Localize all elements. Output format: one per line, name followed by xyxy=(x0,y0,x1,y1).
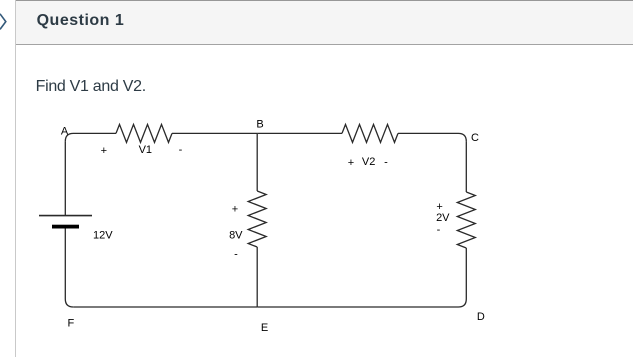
wire bottom F to E xyxy=(73,306,257,308)
wire node B down to resistor 8V xyxy=(256,133,258,191)
svg-text:-: - xyxy=(384,156,388,168)
wire resistor 8V to node E xyxy=(256,247,258,307)
svg-text:V2: V2 xyxy=(362,156,375,168)
wire left branch A to battery xyxy=(64,141,66,215)
battery 12V negative plate xyxy=(52,225,79,229)
resistor V2 xyxy=(342,124,398,142)
battery 12V positive plate xyxy=(39,215,92,217)
svg-text:C: C xyxy=(471,132,479,144)
wire node B to resistor V2 xyxy=(257,132,342,134)
svg-text:+: + xyxy=(101,145,107,157)
svg-text:-: - xyxy=(179,144,183,156)
svg-text:B: B xyxy=(256,119,263,131)
svg-text:-: - xyxy=(437,224,441,236)
resistor V1 xyxy=(116,124,172,142)
svg-text:12V: 12V xyxy=(93,229,113,241)
svg-text:-: - xyxy=(234,248,238,260)
wire resistor V2 to top-right corner C xyxy=(398,133,466,141)
svg-text:+: + xyxy=(232,204,238,216)
svg-text:V1: V1 xyxy=(139,144,152,156)
svg-text:E: E xyxy=(261,322,268,334)
wire resistor 2V to bottom-right corner D xyxy=(465,248,467,299)
resistor 2V xyxy=(457,192,475,248)
nav chevron icon xyxy=(0,0,12,36)
svg-text:F: F xyxy=(68,317,75,329)
svg-text:D: D xyxy=(477,311,485,323)
svg-text:2V: 2V xyxy=(436,212,450,224)
resistor 8V xyxy=(248,191,266,247)
wire node C down to resistor 2V xyxy=(465,141,467,192)
svg-text:8V: 8V xyxy=(229,230,243,242)
wire resistor V1 to node B xyxy=(172,132,257,134)
wire top-left corner A to resistor V1 xyxy=(65,133,116,141)
wire bottom E to D xyxy=(257,299,466,307)
svg-text:+: + xyxy=(348,157,354,169)
wire battery to bottom-left corner F xyxy=(65,229,73,308)
